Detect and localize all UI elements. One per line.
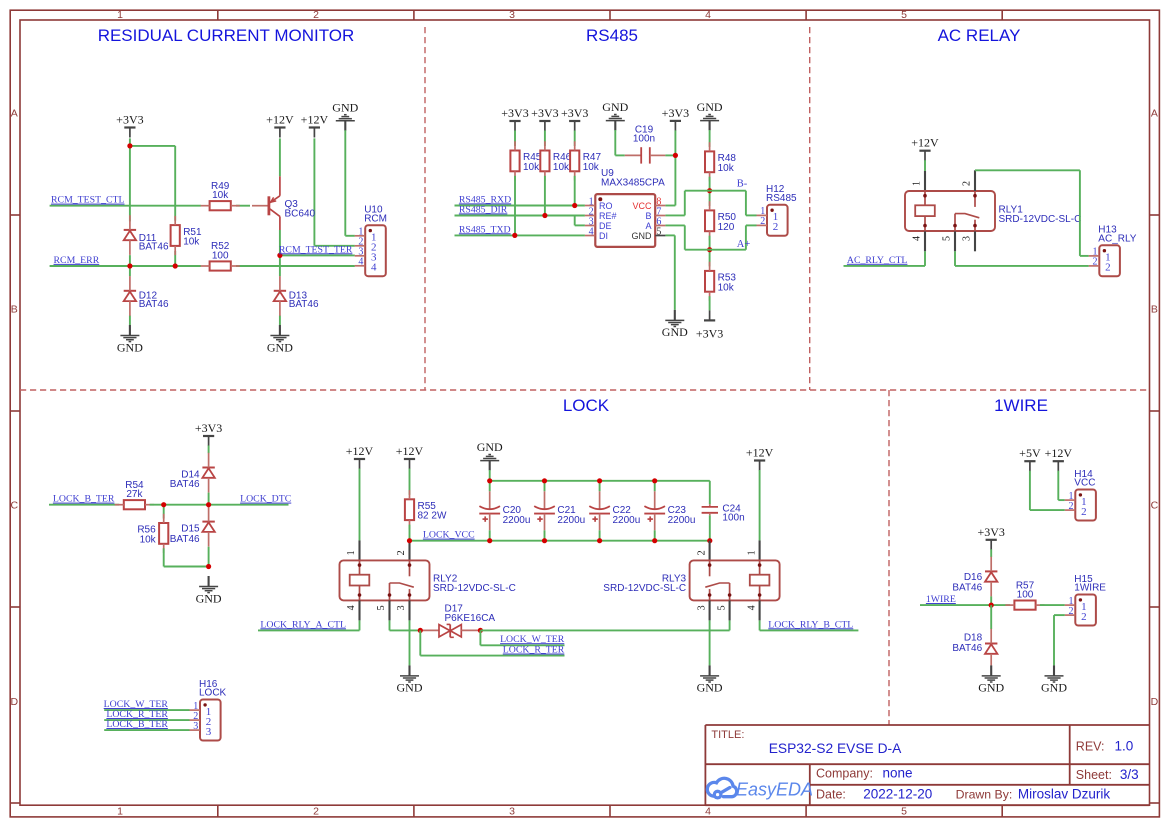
svg-text:A+: A+ xyxy=(737,239,751,250)
svg-text:GND: GND xyxy=(332,100,358,114)
svg-text:B: B xyxy=(645,211,651,221)
svg-text:AC_RLY: AC_RLY xyxy=(1098,233,1136,244)
svg-text:+3V3: +3V3 xyxy=(977,525,1004,539)
svg-text:Miroslav Dzurik: Miroslav Dzurik xyxy=(1018,787,1111,802)
svg-text:BAT46: BAT46 xyxy=(139,299,169,310)
svg-text:B: B xyxy=(1151,304,1158,316)
svg-text:+3V3: +3V3 xyxy=(561,106,588,120)
svg-text:B-: B- xyxy=(737,178,748,189)
svg-text:LOCK_RLY_A_CTL: LOCK_RLY_A_CTL xyxy=(260,619,346,630)
svg-text:BAT46: BAT46 xyxy=(952,643,982,654)
svg-text:+5V: +5V xyxy=(1019,446,1041,460)
svg-text:5: 5 xyxy=(376,605,387,610)
svg-text:1: 1 xyxy=(346,550,357,555)
svg-text:4: 4 xyxy=(346,605,357,610)
svg-text:VCC: VCC xyxy=(1074,478,1095,489)
svg-text:RCM_TEST_TER: RCM_TEST_TER xyxy=(279,244,353,255)
svg-text:Sheet:: Sheet: xyxy=(1076,768,1112,782)
svg-text:2200u: 2200u xyxy=(613,515,641,526)
svg-text:+12V: +12V xyxy=(1045,446,1073,460)
svg-text:AC RELAY: AC RELAY xyxy=(938,26,1021,45)
svg-text:LOCK: LOCK xyxy=(199,688,227,699)
svg-text:+3V3: +3V3 xyxy=(662,106,689,120)
svg-text:+3V3: +3V3 xyxy=(531,106,558,120)
svg-text:A: A xyxy=(11,108,18,120)
svg-text:120: 120 xyxy=(718,222,735,233)
svg-text:100: 100 xyxy=(1017,590,1034,601)
svg-text:Date:: Date: xyxy=(816,788,846,802)
svg-text:GND: GND xyxy=(477,440,503,454)
svg-text:1.0: 1.0 xyxy=(1115,739,1134,754)
svg-text:P6KE16CA: P6KE16CA xyxy=(445,613,496,624)
svg-text:GND: GND xyxy=(697,100,723,114)
svg-text:10k: 10k xyxy=(718,282,735,293)
svg-text:GND: GND xyxy=(697,681,723,695)
svg-text:2: 2 xyxy=(696,550,707,555)
svg-text:none: none xyxy=(883,765,913,780)
svg-text:2: 2 xyxy=(1069,501,1074,512)
svg-text:2: 2 xyxy=(773,221,779,233)
svg-text:2200u: 2200u xyxy=(503,515,531,526)
svg-text:+12V: +12V xyxy=(911,136,939,150)
svg-text:A: A xyxy=(1151,108,1158,120)
svg-text:LOCK_VCC: LOCK_VCC xyxy=(423,530,475,541)
svg-text:LOCK_DTC: LOCK_DTC xyxy=(240,494,291,505)
svg-text:5: 5 xyxy=(656,226,661,237)
svg-text:GND: GND xyxy=(662,325,688,339)
svg-text:2200u: 2200u xyxy=(668,515,696,526)
svg-text:VCC: VCC xyxy=(632,201,652,211)
svg-text:GND: GND xyxy=(978,681,1004,695)
svg-text:AC_RLY_CTL: AC_RLY_CTL xyxy=(847,255,908,266)
svg-text:10k: 10k xyxy=(523,162,540,173)
svg-text:3: 3 xyxy=(509,806,515,818)
svg-text:1WIRE: 1WIRE xyxy=(926,594,956,605)
svg-text:RCM_ERR: RCM_ERR xyxy=(54,255,100,266)
svg-text:82 2W: 82 2W xyxy=(418,511,447,522)
svg-text:1: 1 xyxy=(117,9,123,21)
svg-text:2: 2 xyxy=(1081,611,1087,623)
svg-text:2: 2 xyxy=(1105,262,1111,274)
svg-text:TITLE:: TITLE: xyxy=(711,729,744,741)
svg-text:3: 3 xyxy=(696,605,707,610)
svg-text:1WIRE: 1WIRE xyxy=(1074,583,1106,594)
svg-text:ESP32-S2 EVSE D-A: ESP32-S2 EVSE D-A xyxy=(769,741,902,756)
svg-text:BAT46: BAT46 xyxy=(170,534,200,545)
svg-text:Drawn By:: Drawn By: xyxy=(956,788,1013,802)
svg-text:1: 1 xyxy=(912,181,923,186)
svg-text:2: 2 xyxy=(396,550,407,555)
svg-text:+3V3: +3V3 xyxy=(696,327,723,341)
svg-text:BAT46: BAT46 xyxy=(289,299,319,310)
svg-text:BAT46: BAT46 xyxy=(170,479,200,490)
svg-text:10k: 10k xyxy=(212,190,229,201)
svg-text:GND: GND xyxy=(397,681,423,695)
svg-text:LOCK: LOCK xyxy=(563,396,610,415)
svg-text:LOCK_B_TER: LOCK_B_TER xyxy=(53,494,115,505)
svg-text:DE: DE xyxy=(599,221,612,231)
svg-text:4: 4 xyxy=(371,262,377,274)
svg-text:C: C xyxy=(11,500,19,512)
svg-text:+3V3: +3V3 xyxy=(116,113,143,127)
svg-text:10k: 10k xyxy=(140,534,157,545)
svg-text:2200u: 2200u xyxy=(557,515,585,526)
svg-text:BAT46: BAT46 xyxy=(952,582,982,593)
svg-text:GND: GND xyxy=(267,340,293,354)
svg-text:4: 4 xyxy=(912,236,923,241)
svg-text:C: C xyxy=(1151,500,1159,512)
svg-text:10k: 10k xyxy=(583,162,600,173)
svg-text:5: 5 xyxy=(716,605,727,610)
svg-text:RS485_DIR: RS485_DIR xyxy=(459,204,508,215)
svg-text:+3V3: +3V3 xyxy=(195,421,222,435)
svg-text:27k: 27k xyxy=(126,489,143,500)
svg-text:2: 2 xyxy=(962,181,973,186)
svg-text:GND: GND xyxy=(117,340,143,354)
svg-text:GND: GND xyxy=(632,231,653,241)
svg-text:3: 3 xyxy=(206,726,212,738)
svg-text:2022-12-20: 2022-12-20 xyxy=(863,787,932,802)
svg-text:2: 2 xyxy=(313,9,319,21)
svg-text:RS485: RS485 xyxy=(766,193,797,204)
svg-text:3: 3 xyxy=(962,236,973,241)
svg-text:B: B xyxy=(11,304,18,316)
svg-text:+12V: +12V xyxy=(396,444,424,458)
svg-text:LOCK_R_TER: LOCK_R_TER xyxy=(503,645,565,656)
svg-text:RO: RO xyxy=(599,201,613,211)
svg-text:100n: 100n xyxy=(633,134,655,145)
svg-text:RS485_TXD: RS485_TXD xyxy=(459,224,511,235)
svg-text:10k: 10k xyxy=(553,162,570,173)
svg-text:GND: GND xyxy=(602,100,628,114)
svg-text:SRD-12VDC-SL-C: SRD-12VDC-SL-C xyxy=(603,583,686,594)
svg-text:SRD-12VDC-SL-C: SRD-12VDC-SL-C xyxy=(433,583,516,594)
svg-text:4: 4 xyxy=(358,257,363,268)
svg-text:10k: 10k xyxy=(183,237,200,248)
svg-text:4: 4 xyxy=(589,226,594,237)
svg-text:3: 3 xyxy=(396,605,407,610)
svg-text:1WIRE: 1WIRE xyxy=(994,396,1048,415)
svg-text:RE#: RE# xyxy=(599,211,617,221)
svg-text:BC640: BC640 xyxy=(285,209,316,220)
svg-text:GND: GND xyxy=(196,591,222,605)
svg-text:10k: 10k xyxy=(718,163,735,174)
svg-text:4: 4 xyxy=(705,9,711,21)
svg-text:3: 3 xyxy=(193,721,198,732)
svg-text:+3V3: +3V3 xyxy=(501,106,528,120)
svg-text:100n: 100n xyxy=(722,513,744,524)
svg-text:SRD-12VDC-SL-C: SRD-12VDC-SL-C xyxy=(999,214,1082,225)
svg-text:2: 2 xyxy=(313,806,319,818)
svg-text:3: 3 xyxy=(509,9,515,21)
svg-text:REV:: REV: xyxy=(1076,740,1105,754)
svg-text:+12V: +12V xyxy=(301,113,329,127)
svg-text:D: D xyxy=(11,696,19,708)
svg-text:RCM_TEST_CTL: RCM_TEST_CTL xyxy=(51,195,124,206)
svg-text:RESIDUAL CURRENT MONITOR: RESIDUAL CURRENT MONITOR xyxy=(98,26,355,45)
svg-text:2: 2 xyxy=(1069,606,1074,617)
svg-text:MAX3485CPA: MAX3485CPA xyxy=(601,178,665,189)
svg-text:5: 5 xyxy=(942,236,953,241)
svg-text:100: 100 xyxy=(212,250,229,261)
svg-text:+12V: +12V xyxy=(266,113,294,127)
svg-text:4: 4 xyxy=(746,605,757,610)
svg-text:DI: DI xyxy=(599,231,608,241)
svg-text:4: 4 xyxy=(705,806,711,818)
svg-text:Company:: Company: xyxy=(816,766,873,780)
svg-text:5: 5 xyxy=(901,806,907,818)
svg-text:RS485: RS485 xyxy=(586,26,638,45)
svg-text:2: 2 xyxy=(1081,506,1087,518)
svg-text:2: 2 xyxy=(760,216,765,227)
svg-text:GND: GND xyxy=(1041,681,1067,695)
svg-text:+12V: +12V xyxy=(746,446,774,460)
svg-text:2: 2 xyxy=(1093,257,1098,268)
svg-text:LOCK_B_TER: LOCK_B_TER xyxy=(106,719,168,730)
svg-text:BAT46: BAT46 xyxy=(139,241,169,252)
svg-text:D: D xyxy=(1151,696,1159,708)
svg-text:1: 1 xyxy=(117,806,123,818)
svg-text:+12V: +12V xyxy=(346,444,374,458)
svg-text:EasyEDA: EasyEDA xyxy=(736,779,813,799)
svg-text:5: 5 xyxy=(901,9,907,21)
svg-text:3/3: 3/3 xyxy=(1120,767,1139,782)
svg-text:A: A xyxy=(645,221,651,231)
svg-text:LOCK_RLY_B_CTL: LOCK_RLY_B_CTL xyxy=(768,619,853,630)
svg-text:RCM: RCM xyxy=(364,213,387,224)
svg-text:1: 1 xyxy=(746,550,757,555)
svg-text:D18: D18 xyxy=(964,633,983,644)
